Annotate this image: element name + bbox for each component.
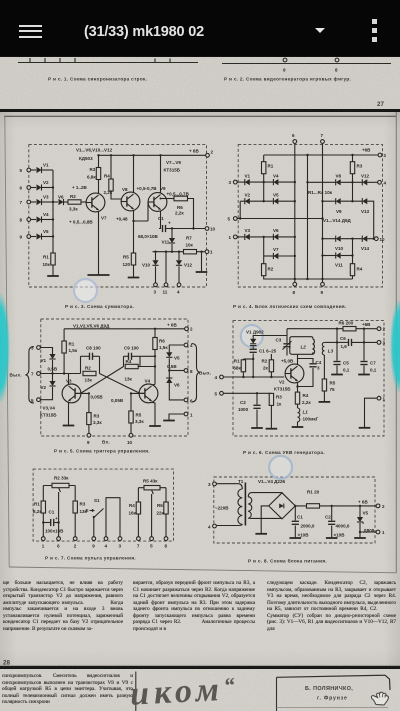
wire terminal 3 to primary xyxy=(216,484,242,489)
script logo иком xyxy=(129,668,276,711)
transistor V8 xyxy=(121,192,140,211)
terminal 1 xyxy=(184,412,188,416)
wire L3 to R5 xyxy=(323,355,325,379)
diode V2 xyxy=(30,187,36,189)
wire V2 collector to tank xyxy=(297,354,299,364)
diode V10 xyxy=(336,236,341,242)
figure plate frame left xyxy=(5,116,9,567)
capacitor C5 xyxy=(333,362,340,365)
diode V3 xyxy=(30,201,36,203)
wire rail to R3 xyxy=(74,486,76,502)
fig.2 schematic box bottom edge xyxy=(222,63,391,65)
switch bracket xyxy=(106,498,120,537)
wire secondary bottom to bridge xyxy=(248,517,282,520)
resistor R4 xyxy=(136,502,140,514)
transformer T1 primary winding xyxy=(238,489,242,524)
capacitor C1 xyxy=(163,225,166,232)
wire V5 to bus xyxy=(42,236,53,238)
wire V6 to terminal 6 xyxy=(169,383,184,400)
diode V5 xyxy=(30,236,36,238)
ground under L1 xyxy=(292,426,304,428)
diode V9 xyxy=(336,198,341,204)
bottom separator black line xyxy=(0,666,400,669)
wire R2 top xyxy=(270,354,272,360)
+6V rail wire xyxy=(264,154,379,156)
wire V11 to R4 xyxy=(341,255,353,257)
wire R1 to terminal 1 xyxy=(42,513,44,537)
terminal 2 xyxy=(378,153,382,157)
bus junctions xyxy=(52,186,54,188)
wire V3 emitter to ground xyxy=(68,403,70,426)
output brace left xyxy=(25,347,34,403)
terminal 9 xyxy=(321,282,325,286)
wire V12 to terminal 4 xyxy=(367,181,378,183)
wire V11 to node xyxy=(171,244,173,252)
wire C1 to ground xyxy=(294,526,296,538)
terminal 2 xyxy=(206,153,210,157)
switch S1 lever xyxy=(94,509,104,518)
wire R6 to V4 collector xyxy=(152,350,156,385)
resistor R1 xyxy=(51,253,55,265)
stain circle xyxy=(74,279,97,302)
wire V7 emitter to ground xyxy=(98,212,100,276)
resistor R3 xyxy=(73,501,77,513)
author box left line xyxy=(276,677,278,711)
wire V6 to bus6 xyxy=(278,236,294,238)
wire node to terminal 11 xyxy=(165,252,167,284)
resistor R1 xyxy=(63,329,65,341)
resistor R1 xyxy=(243,358,253,360)
body text column A xyxy=(3,580,123,632)
terminal 8 xyxy=(164,537,168,541)
fig.1 terminal stubs xyxy=(30,58,170,63)
wire terminal 4 to V5 xyxy=(169,345,184,352)
row wire terminal 3 xyxy=(237,181,245,183)
diode V5 xyxy=(166,352,172,357)
ground under R3 xyxy=(266,428,278,430)
terminal 4 xyxy=(184,343,188,347)
wire R1 to node A xyxy=(63,353,65,374)
diode V4 xyxy=(273,179,278,185)
ground under V5 xyxy=(354,537,366,539)
terminal 4 xyxy=(104,537,108,541)
wire V4 base link xyxy=(140,392,144,394)
resistor R1 xyxy=(307,504,320,508)
fig4 dashed border xyxy=(238,145,382,287)
V10/V14 row wire xyxy=(323,238,336,240)
wire rail to C5 xyxy=(336,329,338,361)
wire V2 emitter to R4 xyxy=(297,382,299,392)
terminal 3 input xyxy=(213,482,217,486)
resistor R5 xyxy=(322,379,326,391)
wire node 8 to terminal 8 xyxy=(169,370,184,372)
terminal 6 xyxy=(57,537,61,541)
body text column B xyxy=(133,580,255,632)
wire V9 collector to rail xyxy=(160,155,162,193)
fig7 dashed border xyxy=(33,469,173,541)
terminal 10 xyxy=(129,433,133,437)
diode V10 xyxy=(155,252,157,261)
diode V12 xyxy=(178,252,180,261)
transistor V7 xyxy=(86,193,105,212)
wire C5 to ground xyxy=(336,366,338,375)
ground under R5 xyxy=(319,401,331,403)
wire V3 to bus xyxy=(42,201,53,203)
terminal 3 xyxy=(377,341,381,345)
wire R4 to V8 base xyxy=(111,191,122,199)
wire terminal 1 to ground xyxy=(169,414,184,420)
hand cursor icon xyxy=(371,692,388,705)
terminal 11 xyxy=(164,283,168,287)
wire V8 collector to rail xyxy=(133,155,135,193)
bus wire from terminal 6 xyxy=(294,143,296,279)
diode V3 xyxy=(245,234,250,240)
figure plate frame bottom xyxy=(9,567,396,573)
wire V2-V5 xyxy=(250,200,274,202)
row wire terminal 1 xyxy=(237,236,245,238)
page vignette shading xyxy=(0,112,400,667)
wire C1 down to input row xyxy=(252,354,254,378)
V9/V13 row wire xyxy=(323,200,336,202)
ground under V7 xyxy=(87,274,109,276)
terminal 5 xyxy=(150,537,154,541)
resistor R3 xyxy=(352,155,354,162)
fig5 dashed border xyxy=(41,319,188,436)
output bottom wire xyxy=(360,531,377,533)
terminal 9 xyxy=(92,537,96,541)
+6V rail wire xyxy=(99,154,207,156)
diode V4 xyxy=(30,219,36,221)
resistor R4 xyxy=(295,392,299,404)
coupling wire to V4 base xyxy=(100,374,141,394)
wire R3 to row xyxy=(352,174,354,183)
bus wire from terminal 7 xyxy=(322,143,324,282)
resistor R2 xyxy=(64,201,68,203)
wire R7 to terminal 1 xyxy=(197,251,206,253)
bottom strip text block xyxy=(2,673,133,711)
wire rail to R6 xyxy=(165,488,167,502)
diode V2 xyxy=(240,200,245,202)
terminal 2 xyxy=(376,504,380,508)
wire terminal 4 to primary xyxy=(216,524,242,525)
input wire 4 xyxy=(223,376,284,378)
terminal 1 xyxy=(205,250,209,254)
terminal 10 xyxy=(374,237,378,241)
wire R3 to rail xyxy=(98,155,100,167)
tank feed wire xyxy=(286,329,288,356)
wire V2 to terminal 5 xyxy=(40,387,52,400)
overflow menu dots xyxy=(372,19,377,24)
resistor R1 xyxy=(41,501,45,513)
diode V14 xyxy=(362,236,367,242)
wire V1-R1 junction xyxy=(250,181,274,183)
diode V6 xyxy=(273,234,278,240)
wire V10-V14 xyxy=(341,238,363,240)
ground under C2 xyxy=(251,427,263,429)
page separator black line xyxy=(0,109,400,112)
resistor R5 xyxy=(131,393,144,411)
capacitor C9 xyxy=(124,355,129,357)
wire V7 collector to R3 xyxy=(98,180,100,194)
wire C6 to terminal 3 xyxy=(352,341,378,343)
wire V10 row to R4 xyxy=(352,239,354,264)
wire V1 to bus xyxy=(42,169,53,171)
potentiometer R2 xyxy=(52,483,69,487)
wire V1 to node7 xyxy=(52,360,54,374)
V11 row wire xyxy=(323,255,336,257)
transistor V2 xyxy=(285,364,304,383)
wire R3 to ground xyxy=(270,405,272,428)
wire C2 to ground xyxy=(256,410,258,429)
wire R4 to terminal 7 xyxy=(137,514,139,537)
ground under V3 xyxy=(63,425,75,427)
resistor R3 xyxy=(270,392,272,394)
stain circle fig8 xyxy=(269,456,292,479)
ground under V4 xyxy=(149,425,161,427)
wire V3 collector xyxy=(68,374,70,385)
resistor R6 xyxy=(343,327,356,331)
ground under C1 xyxy=(290,537,302,539)
wire V4 to bus6 xyxy=(278,181,294,183)
fig8 dashed border xyxy=(214,477,375,543)
terminal 2 xyxy=(73,537,77,541)
wire R3 to terminal 2 xyxy=(74,513,76,537)
diode V11 xyxy=(171,229,173,239)
varicap V1 xyxy=(250,339,256,344)
wire R2 to input row xyxy=(270,372,272,377)
output brace right xyxy=(192,344,201,403)
page 27 bottom strip background xyxy=(0,57,400,109)
dc rail wire xyxy=(295,505,376,507)
bridge diode symbol xyxy=(279,504,284,509)
diode V1 xyxy=(49,354,55,359)
wire terminal 1 to ground xyxy=(365,398,378,427)
right row V8/V12 wire xyxy=(308,181,336,183)
C9 parallel link wires xyxy=(124,356,141,366)
ground under bridge xyxy=(255,533,267,535)
terminal 2 xyxy=(377,327,381,331)
resistor R4 xyxy=(350,264,354,276)
wire V5 to bottom rail xyxy=(359,523,361,538)
body text column C xyxy=(267,580,396,632)
terminal 8 xyxy=(293,282,297,286)
wire R6 to output node xyxy=(188,199,194,229)
stain circle fig6 xyxy=(241,325,263,347)
wire R1 to ground xyxy=(52,265,54,276)
wire bridge left to ground xyxy=(261,506,269,534)
hamburger menu icon xyxy=(19,25,42,27)
wire C7 to ground xyxy=(363,366,365,375)
resistor R2 xyxy=(263,256,265,264)
terminal 6 xyxy=(184,398,188,402)
resistor R2 xyxy=(269,360,273,372)
diode V6 xyxy=(168,371,170,379)
resistor R3 xyxy=(96,168,100,180)
wire C2 to ground xyxy=(331,526,333,538)
diode V12 xyxy=(362,179,367,185)
page top rule xyxy=(4,115,397,117)
ground under R1 xyxy=(47,275,59,277)
resistor R4 xyxy=(125,364,138,368)
bottom internal rail xyxy=(264,276,353,279)
wire V7 to bus6 xyxy=(278,255,294,257)
C8 parallel link wires xyxy=(81,356,100,373)
transistor V3 xyxy=(62,384,81,403)
ground at terminal 1 xyxy=(359,427,371,429)
wire V2 to bus xyxy=(42,187,53,189)
diode V5 xyxy=(273,198,278,204)
right rail wire xyxy=(138,487,166,489)
diode V8 xyxy=(336,179,341,185)
app bar xyxy=(0,0,400,56)
wire emitter node to V9 base xyxy=(134,202,153,221)
capacitor C8 xyxy=(81,355,90,357)
ground at terminal 1 xyxy=(163,420,175,422)
bottom page strip background xyxy=(0,669,400,711)
output row wire xyxy=(153,251,184,253)
terminal 7 xyxy=(137,537,141,541)
wire rail to R4 xyxy=(137,488,139,502)
terminal 1 xyxy=(377,396,381,400)
wire terminal 7 row xyxy=(40,373,80,375)
wire rail to R1 xyxy=(42,486,44,502)
potentiometer R5 xyxy=(144,486,160,490)
terminal 4 xyxy=(378,180,382,184)
wire V5 to bus6 xyxy=(278,200,294,202)
wire V8-V12 xyxy=(341,181,363,183)
capacitor C4 xyxy=(298,359,314,364)
transistor V9 xyxy=(148,193,167,212)
input wire 5 xyxy=(223,392,271,394)
wire V13 right link down xyxy=(367,201,373,239)
wire V4 emitter to ground xyxy=(152,402,156,426)
transistor V4 xyxy=(139,384,158,403)
terminal 4 input xyxy=(213,524,217,528)
fig6 dashed border xyxy=(233,321,384,436)
paper noise overlay xyxy=(0,57,400,109)
wire V12 to terminal 4 xyxy=(178,266,180,283)
terminal 1 xyxy=(376,530,380,534)
wire R4 to bottom rail xyxy=(352,276,354,279)
right teal edge glow xyxy=(390,300,400,392)
wire R6 to terminal 8 xyxy=(165,514,167,537)
ground under R5 xyxy=(128,277,140,279)
fig.2 terminal 9 xyxy=(283,58,287,62)
dropdown arrow xyxy=(315,28,325,33)
wire R5 to terminal 10 xyxy=(130,423,132,434)
wire V10 to terminal 3 xyxy=(155,266,157,283)
transformer T1 secondary winding xyxy=(248,497,252,519)
ground under C5 xyxy=(331,374,343,376)
wire R3 column to V9 row xyxy=(352,182,354,201)
resistor R6 xyxy=(164,502,168,514)
diode V2 xyxy=(52,374,54,382)
diode V7 xyxy=(264,255,274,257)
fig.1 schematic box bottom edge xyxy=(18,62,198,64)
wire V9 emitter to C1 xyxy=(159,211,161,229)
R2 wiper xyxy=(59,488,61,521)
wire V4 to bus xyxy=(42,219,53,221)
advert divider vertical line xyxy=(135,672,137,711)
wire L1 to ground xyxy=(297,422,299,427)
wire secondary top to bridge xyxy=(248,493,282,497)
title xyxy=(84,24,204,40)
left teal edge glow xyxy=(0,294,10,402)
wire terminal 3 to V1 xyxy=(40,348,52,355)
wire V14 to terminal 10 xyxy=(367,238,374,240)
resistor R6 xyxy=(161,198,175,200)
wire rail to C7 xyxy=(363,329,365,361)
main page 28 background xyxy=(0,112,400,667)
wire wiper to terminal 6 xyxy=(58,521,60,538)
wire V1 top to tank xyxy=(253,336,287,339)
terminal 1 xyxy=(41,537,45,541)
+6V rail wire xyxy=(287,328,378,330)
diode V6 xyxy=(53,201,58,203)
resistor R6 xyxy=(154,329,156,338)
wire V3 column to V7 row xyxy=(263,237,265,256)
terminal 9 xyxy=(87,433,91,437)
left link wire xyxy=(239,201,241,218)
wire R5 to ground xyxy=(133,265,135,278)
terminal 8 xyxy=(184,369,188,373)
+6V rail wire xyxy=(64,328,185,330)
wire R1 to input row xyxy=(242,372,244,377)
figure plate frame right xyxy=(395,112,397,573)
resistor R4 xyxy=(110,155,112,179)
wire R3 to terminal 9 xyxy=(88,425,90,434)
R5 wiper xyxy=(152,490,154,537)
fig.2 terminal 8 xyxy=(335,58,339,62)
wire V9-V13 xyxy=(341,200,363,202)
wire R1 column down xyxy=(263,182,265,201)
ground under C2 xyxy=(326,537,338,539)
ground right xyxy=(196,271,208,273)
terminal 10 xyxy=(205,227,209,231)
wire R1 to row xyxy=(263,174,265,182)
inductor L1 xyxy=(297,404,299,408)
wire R5 to ground xyxy=(323,391,325,402)
wire R2 to V7 base xyxy=(81,201,87,203)
terminal 3 xyxy=(154,283,158,287)
terminal 5 row wire xyxy=(237,218,323,220)
resistor R3 xyxy=(81,393,89,412)
bridge rectifier diamond xyxy=(269,493,296,519)
coupling wire to V3 base xyxy=(76,367,124,394)
diode V13 xyxy=(362,198,367,204)
resistor R7 xyxy=(184,250,197,254)
inductor L2 tank loop xyxy=(290,337,315,355)
wire C1 to terminal 10 xyxy=(166,228,206,230)
summing bus wire xyxy=(52,170,54,253)
resistor R5 xyxy=(131,253,135,265)
wire V3-V6 xyxy=(250,236,274,238)
author box top line xyxy=(277,675,391,690)
ground under C7 xyxy=(358,374,370,376)
resistor R1 xyxy=(263,155,265,162)
wire C4 to emitter node xyxy=(298,368,314,387)
wire R4 to V4 collector line xyxy=(138,366,155,368)
author box bottom line xyxy=(277,707,389,709)
wire switch to terminal 9 xyxy=(93,518,95,538)
wire V8 emitter down xyxy=(133,211,135,254)
diode V11 xyxy=(336,252,341,258)
capacitor C7 xyxy=(360,362,367,365)
wire V5 to node 8 xyxy=(168,358,170,370)
capacitor C1 xyxy=(252,347,254,349)
terminal 4 xyxy=(177,283,181,287)
internal vertical wire xyxy=(307,155,309,279)
